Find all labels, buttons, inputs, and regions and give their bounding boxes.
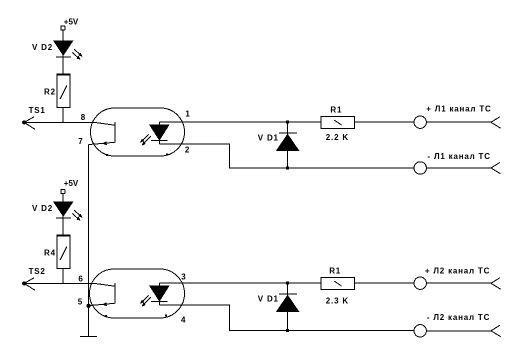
wire +5V to VD2 (62, 30, 64, 41)
optocoupler U1 body (91, 108, 185, 156)
svg-text:2.3 K: 2.3 K (326, 296, 349, 305)
resistor R2 (57, 74, 71, 107)
svg-text:7: 7 (78, 137, 83, 146)
svg-text:V D1: V D1 (258, 134, 279, 143)
connector chevron + channel 1 (491, 117, 501, 128)
wire pin 5 to ground bus (89, 304, 104, 305)
resistor R4 (57, 235, 71, 268)
svg-text:V D1: V D1 (258, 295, 279, 304)
output circle - channel 2 (414, 325, 426, 337)
+5V terminal (bottom) (61, 179, 79, 193)
ground (80, 336, 97, 338)
U2 phototransistor (95, 283, 116, 305)
connector chevron - channel 1 (491, 163, 501, 174)
svg-text:2: 2 (185, 145, 190, 154)
svg-text:+5V: +5V (64, 18, 79, 27)
junction VD1 bottom (ch1) (286, 167, 289, 170)
wire VD2 to R4 (62, 218, 64, 235)
LED VD2 (bottom) (54, 202, 82, 220)
wire TS1 to optocoupler pin 8 (24, 121, 95, 123)
U2 internal LED (141, 283, 169, 306)
resistor R1 (channel 1) (321, 116, 354, 128)
junction VD1 top (ch1) (286, 121, 289, 124)
optocoupler U2 body (90, 269, 185, 318)
svg-text:V D2: V D2 (32, 204, 53, 213)
wire pin 3 to output (+ channel 2) (160, 282, 414, 284)
wire pin 7 to ground bus (89, 143, 104, 144)
U1 phototransistor (95, 122, 116, 144)
junction VD1 bottom (ch2) (286, 329, 289, 332)
wire +5V to VD2 (bottom) (62, 194, 64, 203)
wire R4 to TS2 node (62, 268, 64, 283)
terminal arrow TS2 (23, 278, 35, 291)
wire pin 2 to output (- channel 1) (160, 144, 414, 168)
svg-text:3: 3 (181, 272, 186, 281)
output circle - channel 1 (414, 162, 426, 174)
svg-text:TS2: TS2 (29, 267, 46, 276)
wire to chevron + channel 2 (426, 282, 491, 284)
svg-text:6: 6 (78, 274, 83, 283)
connector chevron + channel 2 (491, 278, 501, 289)
svg-text:4: 4 (181, 315, 186, 324)
svg-text:TS1: TS1 (29, 106, 46, 115)
resistor R1 (channel 2) (321, 277, 354, 289)
junction pin5 / bus (87, 304, 90, 307)
svg-text:R1: R1 (329, 267, 341, 276)
diode VD1 (channel 1) (277, 122, 299, 168)
connector chevron - channel 2 (491, 325, 501, 336)
ground bus (88, 145, 90, 337)
output circle + channel 2 (414, 277, 426, 289)
wire TS2 to optocoupler pin 6 (24, 282, 95, 284)
svg-text:+ Л2 канал ТС: + Л2 канал ТС (425, 267, 490, 276)
U1 internal LED (141, 122, 169, 145)
ellipse vertex dots U2 (105, 314, 167, 317)
diode VD1 (channel 2) (277, 283, 299, 330)
wire to chevron + channel 1 (426, 121, 491, 123)
svg-text:+ Л1 канал ТС: + Л1 канал ТС (426, 104, 491, 113)
LED VD2 (top) (54, 41, 82, 59)
wire to chevron - channel 2 (426, 330, 491, 332)
svg-text:1: 1 (185, 109, 190, 118)
svg-text:+5V: +5V (64, 179, 79, 188)
svg-text:R4: R4 (44, 249, 56, 258)
svg-text:2.2 K: 2.2 K (326, 133, 349, 142)
svg-text:8: 8 (81, 113, 86, 122)
ellipse vertex dots U1 (106, 153, 168, 156)
wire VD2 to R2 (62, 57, 64, 74)
output circle + channel 1 (414, 116, 426, 128)
wire R2 to TS1 node (62, 107, 64, 122)
wire to chevron - channel 1 (426, 167, 491, 169)
svg-text:- Л1 канал ТС: - Л1 канал ТС (428, 152, 491, 161)
wire pin 4 to output (- channel 2) (160, 305, 414, 330)
svg-text:R1: R1 (330, 105, 342, 114)
junction VD1 top (ch2) (286, 282, 289, 285)
wire pin 1 to output (+ channel 1) (160, 121, 414, 123)
+5V terminal (top) (61, 18, 79, 30)
svg-text:5: 5 (78, 297, 83, 306)
terminal arrow TS1 (23, 117, 35, 130)
svg-text:R2: R2 (44, 88, 56, 97)
svg-text:V D2: V D2 (32, 43, 53, 52)
svg-text:- Л2 канал ТС: - Л2 канал ТС (427, 313, 490, 322)
